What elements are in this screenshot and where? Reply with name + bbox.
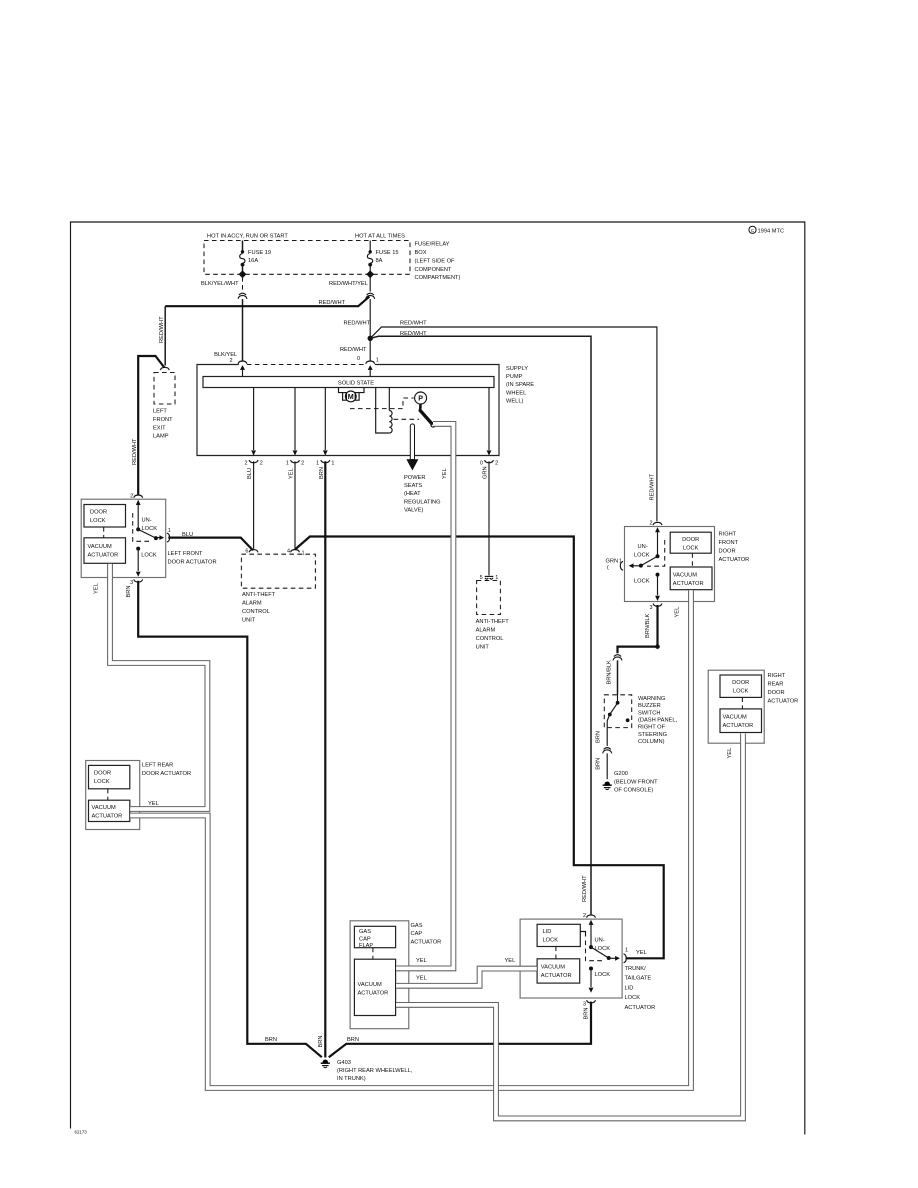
svg-text:1: 1 [286,460,289,466]
svg-text:EXIT: EXIT [153,425,166,431]
svg-text:3: 3 [649,605,652,611]
svg-text:ALARM: ALARM [476,627,496,633]
trunk dashed link [555,947,557,959]
solid state bar [203,377,494,388]
svg-text:YEL: YEL [94,583,100,594]
fuse F19 15A [239,241,272,279]
svg-text:RED/WHT: RED/WHT [400,331,427,337]
svg-text:COLUMN): COLUMN) [638,739,665,745]
svg-text:REAR: REAR [768,681,784,687]
svg-text:2: 2 [301,460,304,466]
svg-text:LOCK: LOCK [141,552,157,558]
supply pump box [197,365,499,456]
dashed mech link motor to pressure switch [350,398,419,419]
svg-text:3: 3 [583,1001,586,1007]
ground G200 [603,771,659,793]
gas cap actuator box [350,921,441,1029]
RF dashed link [691,553,693,567]
svg-text:(BELOW FRONT: (BELOW FRONT [614,779,658,785]
svg-text:DOOR: DOOR [732,680,749,686]
svg-text:ACTUATOR: ACTUATOR [673,581,704,587]
svg-text:LOCK: LOCK [634,552,650,558]
LF dashed bracket [133,513,150,541]
svg-text:GRN: GRN [483,466,489,479]
svg-text:BRN: BRN [596,731,602,743]
svg-text:ACTUATOR: ACTUATOR [625,1005,656,1011]
svg-text:BUZZER: BUZZER [638,703,661,709]
svg-text:BRN: BRN [347,1037,359,1043]
right rear door actuator box [708,670,798,743]
svg-text:WELL): WELL) [506,399,523,405]
LR dashed link [107,789,109,800]
wire BLU pump to anti-theft pin 6 [253,461,255,549]
svg-text:CONTROL: CONTROL [242,609,270,615]
svg-text:16A: 16A [248,258,258,264]
trunk dashed bracket [586,941,603,961]
svg-text:FUSE 15: FUSE 15 [376,250,399,256]
LR door lock box [89,765,130,788]
svg-text:LID: LID [543,929,552,935]
svg-text:YEL: YEL [442,468,448,479]
svg-text:CAP: CAP [359,936,371,942]
svg-text:BRN: BRN [319,467,325,479]
svg-text:SUPPLY: SUPPLY [506,366,528,372]
svg-text:3: 3 [130,580,133,586]
frame border [71,222,805,1135]
svg-text:2: 2 [229,358,232,364]
svg-text:RED/WHT: RED/WHT [319,300,346,306]
anti-theft alarm control unit 2 [476,581,510,651]
LF pin 2 top [130,493,142,505]
wire from AT1 pin4 to trunk pin 1 (YEL) [295,537,664,959]
hose: gas cap actuator to RR vacuum actuator (YEL) [396,734,745,1121]
svg-text:BRN/BLK: BRN/BLK [607,660,613,685]
svg-text:VACUUM: VACUUM [88,544,112,550]
svg-text:RED/WHT: RED/WHT [159,316,165,343]
svg-text:ACTUATOR: ACTUATOR [768,698,799,704]
svg-text:2: 2 [244,460,247,466]
RR door lock box [720,675,762,697]
gas cap vacuum actuator box [354,959,395,1015]
svg-text:YEL: YEL [289,468,295,479]
RF door lock box [670,532,711,553]
svg-text:1: 1 [302,550,305,556]
svg-text:(: ( [607,565,609,571]
svg-text:BRN: BRN [126,585,132,597]
svg-text:LOCK: LOCK [683,545,699,551]
pump pin 2 (BLK/YEL) [214,352,247,377]
svg-text:2: 2 [649,520,652,526]
svg-text:BRN: BRN [596,758,602,770]
svg-text:2: 2 [130,493,133,499]
svg-text:UNIT: UNIT [476,645,490,651]
left front exit lamp [132,356,175,496]
copyright 1994 MTC [749,226,784,234]
LF pin 3 bottom [130,579,142,586]
RR vacuum actuator box [720,709,762,733]
svg-text:RED/WHT: RED/WHT [340,347,367,353]
RF dashed bracket [647,540,665,566]
svg-text:(HEAT: (HEAT [404,491,421,497]
svg-text:LOCK: LOCK [733,689,749,695]
svg-text:8A: 8A [376,258,383,264]
svg-text:LID: LID [625,985,634,991]
svg-text:RED/WHT: RED/WHT [582,875,588,902]
svg-text:1: 1 [495,575,498,581]
fuse F15 8A [366,241,398,279]
svg-text:IN TRUNK): IN TRUNK) [337,1076,366,1082]
svg-text:VACUUM: VACUUM [541,964,565,970]
svg-text:CONTROL: CONTROL [476,636,504,642]
svg-text:SWITCH: SWITCH [638,710,660,716]
svg-text:DOOR: DOOR [90,509,107,515]
svg-text:OF CONSOLE): OF CONSOLE) [614,788,653,794]
svg-text:DOOR ACTUATOR: DOOR ACTUATOR [142,771,191,777]
svg-text:SEATS: SEATS [404,483,422,489]
wire GRN pump to anti-theft unit 2 [480,461,499,581]
svg-text:DOOR: DOOR [94,771,111,777]
svg-text:5: 5 [480,575,483,581]
svg-text:DOOR: DOOR [682,537,699,543]
svg-text:RED/WHT: RED/WHT [344,320,371,326]
svg-text:1: 1 [376,358,379,364]
svg-text:VACUUM: VACUUM [723,714,747,720]
svg-text:UN-: UN- [638,544,648,550]
wire BRN LF pin3 to ground G403 [126,581,322,1057]
LF dashed link lock to vacuum [103,527,105,538]
svg-text:RIGHT OF: RIGHT OF [638,725,666,731]
svg-text:FLAP: FLAP [359,943,373,949]
trunk switch [589,924,620,961]
trunk vacuum actuator box [537,959,580,983]
svg-text:BOX: BOX [415,250,427,256]
AT1 pin 6 [245,549,258,555]
svg-text:LEFT REAR: LEFT REAR [142,762,173,768]
svg-text:COMPARTMENT): COMPARTMENT) [415,275,461,281]
svg-text:DOOR ACTUATOR: DOOR ACTUATOR [168,559,217,565]
svg-text:1: 1 [619,558,622,564]
ground G403 [321,1060,413,1083]
wire BRN pump to ground G403 [318,461,325,1057]
wire RED/WHT branch A to right front door [370,321,657,522]
svg-text:UNIT: UNIT [242,618,256,624]
power seats arrow (heat regulating valve) [404,424,441,514]
svg-text:G403: G403 [337,1060,351,1066]
svg-text:6: 6 [245,549,248,555]
svg-text:YEL: YEL [675,607,681,618]
svg-text:YEL: YEL [416,975,427,981]
svg-text:VACUUM: VACUUM [92,805,116,811]
lid lock box [537,924,580,946]
svg-text:2: 2 [583,913,586,919]
hose: supply pump to gas cap actuator (YEL) [396,422,456,971]
pump bottom pin BLU 2|2 [244,388,262,480]
RF vacuum actuator box [670,567,712,590]
svg-text:P: P [418,394,423,403]
right front door actuator box [625,527,750,602]
svg-text:ACTUATOR: ACTUATOR [358,991,389,997]
wire YEL pump to anti-theft pin 4 [294,461,296,549]
svg-text:YEL: YEL [727,748,733,759]
svg-text:1: 1 [331,460,334,466]
RF pin 2 top [649,520,661,532]
svg-text:(DASH PANEL,: (DASH PANEL, [638,718,678,724]
trunk/tailgate lid lock actuator box [520,919,655,1011]
svg-text:62173: 62173 [75,1130,88,1135]
svg-text:2: 2 [495,460,498,466]
svg-text:ACTUATOR: ACTUATOR [88,553,119,559]
svg-text:FRONT: FRONT [719,540,739,546]
svg-text:YEL: YEL [148,801,159,807]
wire BLK/YEL/WHT from fuse 19 [201,277,248,362]
svg-text:FUSE 19: FUSE 19 [248,250,271,256]
svg-text:RED/WHT/YEL: RED/WHT/YEL [329,281,368,287]
svg-text:YEL: YEL [416,958,427,964]
RF pin 1 left (GRN) [606,558,624,571]
svg-text:ACTUATOR: ACTUATOR [411,940,442,946]
svg-text:BRN: BRN [318,1035,324,1047]
link lid lock to switch [580,932,585,937]
svg-text:RED/WHT: RED/WHT [132,438,138,465]
pump bottom pin YEL 1|2 [286,388,304,480]
node: RED/WHT junction [368,336,373,341]
svg-text:LOCK: LOCK [625,995,641,1001]
svg-text:M: M [348,392,354,401]
svg-text:VACUUM: VACUUM [358,982,382,988]
svg-text:HOT AT ALL TIMES: HOT AT ALL TIMES [355,234,405,240]
RF switch [629,531,660,568]
svg-text:YEL: YEL [636,950,647,956]
LF switch unlock contact and blade [136,504,164,540]
svg-text:WARNING: WARNING [638,696,665,702]
svg-text:1: 1 [316,460,319,466]
svg-text:UN-: UN- [142,518,152,524]
svg-text:STEERING: STEERING [638,732,667,738]
svg-text:BRN/BLK: BRN/BLK [645,613,651,638]
svg-text:1: 1 [625,948,628,954]
svg-text:VALVE): VALVE) [404,508,423,514]
svg-text:(IN SPARE: (IN SPARE [506,382,534,388]
svg-text:LEFT FRONT: LEFT FRONT [168,551,203,557]
svg-text:CAP: CAP [411,931,423,937]
wire BRN buzzer to ground G200 [596,728,613,780]
trunk pin 1 right (YEL) [624,948,647,963]
svg-text:ACTUATOR: ACTUATOR [719,557,750,563]
LF vacuum actuator box [84,538,126,564]
svg-text:(LEFT SIDE OF: (LEFT SIDE OF [415,258,456,264]
svg-text:YEL: YEL [505,958,516,964]
svg-text:POWER: POWER [404,475,426,481]
svg-text:ACTUATOR: ACTUATOR [723,723,754,729]
wire RED/WHT main horizontal [165,297,369,307]
svg-text:2: 2 [260,460,263,466]
RR dashed link [741,697,743,709]
svg-text:LOCK: LOCK [543,938,559,944]
svg-text:BLU: BLU [247,468,253,479]
svg-text:TRUNK/: TRUNK/ [625,966,647,972]
gas cap dashed link [372,948,374,960]
svg-text:BRN: BRN [265,1037,277,1043]
svg-text:FRONT: FRONT [153,417,173,423]
svg-text:RIGHT: RIGHT [719,532,737,538]
svg-text:BRN: BRN [584,1007,590,1019]
pump solenoid coil [376,388,392,434]
hose: gas cap actuator to trunk vacuum actuator (YEL) [396,966,537,988]
LF lock contact [136,547,157,577]
svg-text:ACTUATOR: ACTUATOR [541,973,572,979]
svg-text:REGULATING: REGULATING [404,499,441,505]
svg-text:ACTUATOR: ACTUATOR [92,814,123,820]
svg-text:HOT IN ACCY, RUN OR START: HOT IN ACCY, RUN OR START [207,234,288,240]
svg-text:LOCK: LOCK [142,526,158,532]
pressure switch P [415,392,436,427]
gas cap flap box [354,926,395,949]
labels BRN at ground bus [265,1037,359,1043]
LF door lock box [84,505,126,528]
svg-text:ALARM: ALARM [242,600,262,606]
svg-text:1: 1 [168,528,171,534]
wire RED/WHT/YEL from fuse 15 [329,277,375,362]
svg-text:ANTI-THEFT: ANTI-THEFT [476,619,510,625]
svg-text:ANTI-THEFT: ANTI-THEFT [242,592,276,598]
left front door actuator box [81,499,216,577]
svg-text:LOCK: LOCK [595,972,611,978]
RF pin 3 bottom [649,604,661,611]
svg-text:WHEEL: WHEEL [506,390,526,396]
svg-text:LOCK: LOCK [94,779,110,785]
svg-text:1994 MTC: 1994 MTC [758,228,785,234]
svg-text:G200: G200 [614,771,628,777]
svg-text:4: 4 [287,549,290,555]
svg-text:(RIGHT REAR WHEELWELL,: (RIGHT REAR WHEELWELL, [337,1068,413,1074]
anti-theft alarm control unit 1 [241,554,315,623]
svg-text:TAILGATE: TAILGATE [625,976,652,982]
svg-text:LEFT: LEFT [153,409,167,415]
svg-text:GAS: GAS [359,929,371,935]
wire BLU LF pin1 to anti-theft pin 6 [168,532,253,550]
svg-text:LOCK: LOCK [634,579,650,585]
svg-text:BLU: BLU [182,532,193,538]
svg-text:FUSE/RELAY: FUSE/RELAY [415,242,450,248]
pump motor M [339,388,365,402]
svg-text:COMPONENT: COMPONENT [415,267,452,273]
left rear door actuator box [86,761,191,830]
svg-text:DOOR: DOOR [768,690,785,696]
svg-text:LOCK: LOCK [595,946,611,952]
svg-text:SOLID STATE: SOLID STATE [338,380,374,386]
svg-text:GAS: GAS [411,923,423,929]
svg-text:GRN: GRN [606,558,619,564]
svg-text:BLK/YEL: BLK/YEL [214,352,237,358]
wire RED/WHT to left front exit lamp [159,306,165,365]
svg-text:BLK/YEL/WHT: BLK/YEL/WHT [201,281,239,287]
svg-text:RED/WHT: RED/WHT [650,473,656,500]
LF pin 1 right [167,528,171,542]
label: SUPPLY PUMP (IN SPARE WHEEL WELL) [506,366,534,405]
trunk pin 2 top [583,913,595,925]
RF lock contact [634,573,660,601]
wire BRN/BLK RF pin3 to warning buzzer switch [607,605,660,695]
LR vacuum actuator box [89,800,130,821]
svg-text:LOCK: LOCK [90,518,106,524]
fuse/relay box [204,241,410,275]
wire BRN trunk pin3 to ground G403 [329,1002,591,1058]
svg-text:RED/WHT: RED/WHT [400,321,427,327]
AT1 pin 4|1 [287,549,305,557]
svg-text:0: 0 [480,460,483,466]
hose: LF vacuum actuator to LR vacuum actuator (YEL) [108,564,210,812]
warning buzzer switch [604,695,677,745]
svg-text:0: 0 [357,356,360,362]
pump bottom pin BRN 1|1 [316,388,334,480]
svg-text:LAMP: LAMP [153,434,169,440]
trunk lock contact [589,967,611,993]
trunk pin 3 bottom [583,1000,595,1007]
svg-text:DOOR: DOOR [719,549,736,555]
svg-text:PUMP: PUMP [506,374,523,380]
pump bottom pin GRN 0|2 [480,388,498,480]
pump pin 0/1 (RED/WHT) [340,347,379,377]
hose: LR vacuum actuator to RF vacuum actuator (YEL manifold) [130,590,693,1090]
label: FUSE/RELAY BOX (LEFT SIDE OF COMPONENT COMPARTMENT) [415,242,461,282]
wire RED/WHT branch B to trunk lid actuator [344,320,592,914]
svg-text:VACUUM: VACUUM [673,572,697,578]
svg-text:RIGHT: RIGHT [768,673,786,679]
svg-text:UN-: UN- [595,938,605,944]
